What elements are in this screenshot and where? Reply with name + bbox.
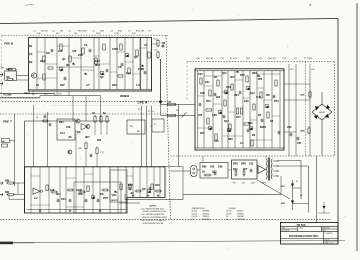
svg-text:68K: 68K	[5, 191, 10, 194]
svg-text:UNLESS OTHERWISE NOTED: UNLESS OTHERWISE NOTED	[143, 211, 168, 213]
svg-text:C50: C50	[287, 126, 292, 129]
svg-text:10K: 10K	[37, 33, 41, 35]
svg-text:C62: C62	[249, 163, 254, 166]
svg-text:C21: C21	[61, 198, 66, 201]
svg-text:R2: R2	[29, 60, 33, 64]
svg-text:D3,D4: D3,D4	[226, 213, 231, 215]
svg-text:C21: C21	[205, 81, 210, 84]
svg-text:D5: D5	[226, 216, 228, 218]
svg-text:1N4: 1N4	[234, 94, 239, 97]
svg-text:8K2: 8K2	[95, 63, 100, 67]
svg-text:R90: R90	[202, 166, 207, 169]
svg-text:R75: R75	[274, 100, 279, 103]
svg-text:25V: 25V	[200, 132, 205, 135]
svg-text:47K: 47K	[132, 33, 136, 35]
svg-text:100: 100	[198, 114, 203, 117]
svg-text:C3: C3	[29, 52, 33, 56]
svg-text:R9 470K: R9 470K	[78, 31, 87, 33]
svg-text:.05: .05	[68, 136, 72, 139]
svg-text:Q2: Q2	[100, 75, 104, 79]
svg-text:C6: C6	[84, 43, 88, 47]
svg-text:1K: 1K	[92, 112, 95, 115]
svg-text:0.5: 0.5	[137, 131, 140, 133]
svg-text:1N4148: 1N4148	[237, 216, 244, 218]
svg-text:SW: SW	[176, 110, 179, 112]
svg-text:JACK: JACK	[6, 68, 13, 71]
svg-text:Q2,Q3: Q2,Q3	[192, 213, 198, 215]
svg-text:1K: 1K	[202, 171, 205, 174]
svg-text:4K7: 4K7	[230, 76, 235, 79]
svg-text:10K: 10K	[50, 189, 55, 192]
svg-text:10K: 10K	[66, 126, 71, 129]
svg-text:SHEET 1 OF 1: SHEET 1 OF 1	[325, 242, 334, 244]
svg-text:4K7: 4K7	[56, 193, 61, 196]
svg-text:TITLE: TITLE	[299, 228, 303, 230]
svg-text:SW1: SW1	[58, 94, 62, 96]
svg-text:25V: 25V	[60, 83, 65, 87]
svg-text:R66 220: R66 220	[268, 58, 277, 60]
svg-text:1N4001: 1N4001	[237, 211, 244, 213]
svg-text:10R: 10R	[200, 92, 205, 95]
svg-text:1R: 1R	[258, 114, 261, 117]
svg-text:R1: R1	[29, 44, 33, 48]
svg-text:2N5088: 2N5088	[203, 211, 210, 213]
svg-text:R61 1K: R61 1K	[206, 58, 214, 60]
svg-text:Q1: Q1	[62, 57, 66, 61]
svg-text:220K: 220K	[96, 33, 101, 35]
svg-text:R72: R72	[206, 100, 211, 103]
svg-text:C51: C51	[297, 142, 302, 145]
svg-text:R31: R31	[59, 121, 64, 124]
svg-text:100K: 100K	[112, 47, 118, 51]
svg-text:TRANSISTORS: TRANSISTORS	[191, 207, 205, 210]
svg-text:DWN: DWN	[282, 228, 286, 230]
svg-text:AND 50V OTHERWISE STATED: AND 50V OTHERWISE STATED	[143, 216, 168, 219]
svg-text:POT: POT	[32, 94, 35, 96]
svg-text:MPSA06: MPSA06	[203, 218, 210, 221]
svg-text:2N3: 2N3	[252, 72, 257, 75]
svg-text:470: 470	[72, 49, 77, 53]
svg-text:D6: D6	[226, 219, 228, 221]
svg-text:22K: 22K	[78, 53, 83, 57]
svg-text:1M: 1M	[6, 76, 9, 79]
svg-text:SR2: SR2	[281, 203, 285, 205]
svg-text:1R: 1R	[270, 120, 273, 123]
svg-text:2. ALL CAP VALUES ARE MFD: 2. ALL CAP VALUES ARE MFD	[141, 213, 165, 216]
svg-text:1K5: 1K5	[155, 184, 160, 187]
svg-text:4K7: 4K7	[85, 136, 90, 139]
svg-text:50K: 50K	[78, 193, 83, 196]
svg-text:4K7: 4K7	[40, 59, 45, 63]
svg-text:10K: 10K	[210, 166, 215, 169]
svg-text:220: 220	[97, 139, 102, 142]
svg-text:C35: C35	[244, 100, 249, 103]
svg-text:Q14: Q14	[224, 120, 229, 123]
svg-text:2N3904: 2N3904	[120, 94, 130, 98]
svg-text:Q3: Q3	[134, 55, 138, 59]
svg-text:1K: 1K	[214, 76, 217, 79]
svg-text:2.2M: 2.2M	[114, 33, 119, 35]
svg-text:10K: 10K	[58, 49, 63, 53]
svg-text:R4 1M: R4 1M	[41, 31, 48, 33]
svg-text:TR 500: TR 500	[297, 223, 306, 227]
svg-text:1M: 1M	[74, 33, 77, 35]
svg-text:1N4002: 1N4002	[237, 213, 244, 215]
svg-text:Q1,Q4: Q1,Q4	[192, 211, 198, 213]
svg-text:2N4250: 2N4250	[203, 213, 210, 215]
svg-text:F1: F1	[296, 181, 298, 183]
svg-text:2N: 2N	[66, 63, 69, 67]
svg-text:NOTES:: NOTES:	[149, 205, 157, 207]
svg-text:Q13: Q13	[226, 86, 231, 89]
svg-text:PRE B: PRE B	[4, 41, 14, 45]
svg-text:0.1: 0.1	[240, 142, 244, 145]
svg-text:1. ALL RESISTORS ARE 1/4W: 1. ALL RESISTORS ARE 1/4W	[141, 207, 165, 210]
svg-text:5W: 5W	[266, 94, 270, 97]
svg-text:C60: C60	[218, 166, 223, 169]
svg-text:055: 055	[258, 78, 263, 81]
svg-text:LPC A: LPC A	[138, 101, 149, 105]
svg-text:COM: COM	[76, 189, 82, 192]
svg-text:1.0: 1.0	[136, 83, 140, 87]
svg-text:2K2: 2K2	[112, 83, 117, 87]
svg-text:DRV: DRV	[241, 163, 246, 166]
svg-text:0.47: 0.47	[256, 96, 261, 99]
svg-text:R52: R52	[128, 184, 133, 187]
svg-text:C38: C38	[212, 114, 217, 117]
svg-text:SR1: SR1	[281, 186, 285, 188]
svg-text:2N3055: 2N3055	[203, 216, 210, 218]
svg-text:1M: 1M	[100, 193, 103, 196]
svg-text:D1,D2: D1,D2	[226, 211, 231, 213]
svg-text:BIAS: BIAS	[260, 126, 266, 129]
svg-text:RICKENBACKER INC.: RICKENBACKER INC.	[289, 234, 319, 238]
svg-text:Q21: Q21	[233, 168, 238, 171]
svg-text:PRE T: PRE T	[3, 119, 13, 123]
svg-text:B+ 42V: B+ 42V	[230, 58, 237, 60]
svg-text:150R: 150R	[138, 67, 144, 71]
svg-text:16R: 16R	[251, 183, 255, 185]
svg-text:68K: 68K	[5, 180, 10, 183]
svg-text:R77: R77	[236, 116, 241, 119]
svg-text:POT: POT	[103, 197, 109, 200]
svg-text:1M POT: 1M POT	[111, 200, 119, 202]
svg-text:220: 220	[216, 96, 221, 99]
svg-text:C8: C8	[118, 65, 122, 69]
svg-text:VOLUME: VOLUME	[3, 94, 12, 96]
svg-text:T1 PWR: T1 PWR	[304, 58, 312, 60]
svg-text:Q5,Q6: Q5,Q6	[192, 216, 198, 218]
svg-text:Q12: Q12	[250, 92, 255, 95]
svg-text:100R: 100R	[300, 131, 305, 133]
svg-text:C14: C14	[60, 132, 65, 135]
svg-text:C40: C40	[214, 140, 219, 143]
svg-text:2.2: 2.2	[34, 197, 38, 200]
svg-text:C2: C2	[130, 126, 132, 128]
svg-text:100R: 100R	[300, 95, 305, 97]
svg-text:DIODES: DIODES	[228, 208, 236, 210]
svg-text:1N753A: 1N753A	[237, 218, 245, 221]
svg-text:NONPOLARIZED SPECIAL: NONPOLARIZED SPECIAL	[143, 222, 164, 225]
svg-text:4K7: 4K7	[243, 168, 248, 171]
svg-text:4.7: 4.7	[86, 83, 90, 87]
svg-text:3. ALL ELECTROLYTIC ARE 25V: 3. ALL ELECTROLYTIC ARE 25V	[141, 219, 167, 222]
svg-text:R70: R70	[240, 74, 245, 77]
svg-text:VOL: VOL	[112, 193, 118, 197]
svg-text:Q15: Q15	[248, 122, 253, 125]
svg-text:REV: REV	[233, 163, 238, 166]
svg-text:R17 10K: R17 10K	[136, 31, 145, 33]
svg-text:Q11: Q11	[222, 72, 227, 75]
svg-text:1K2: 1K2	[95, 59, 100, 63]
svg-text:1N4: 1N4	[126, 71, 131, 75]
svg-text:C31: C31	[198, 73, 203, 76]
svg-text:B+: B+	[103, 112, 107, 115]
svg-text:Q7: Q7	[192, 219, 195, 221]
svg-text:.02: .02	[130, 192, 134, 195]
svg-text:1M: 1M	[46, 51, 50, 55]
svg-text:R80: R80	[228, 138, 233, 141]
